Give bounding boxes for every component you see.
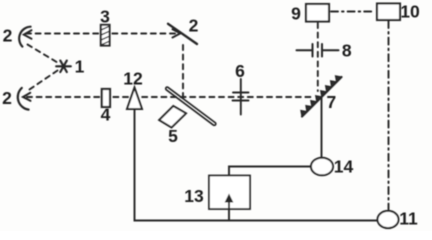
wire: grating 7 to detector 14 xyxy=(321,98,323,158)
plate 5 (tilted) xyxy=(159,106,186,128)
arrowhead at flat mirror 2 xyxy=(173,29,181,37)
attenuator 4 (open plate) xyxy=(102,89,110,107)
svg-text:2: 2 xyxy=(189,16,199,36)
svg-text:13: 13 xyxy=(184,186,204,206)
svg-text:6: 6 xyxy=(235,61,245,81)
wire: feedback line from modulator 12 to detector 11 xyxy=(135,109,378,221)
box 10 xyxy=(377,4,400,21)
svg-text:11: 11 xyxy=(399,209,418,229)
wire: amplifier 13 output to detector 14 xyxy=(229,167,311,176)
concave mirror 2 (bottom left) xyxy=(18,88,29,110)
svg-text:2: 2 xyxy=(3,26,13,46)
wire: top horizontal dashed beam xyxy=(26,33,176,35)
svg-text:4: 4 xyxy=(101,105,111,125)
svg-text:9: 9 xyxy=(291,4,301,24)
svg-text:7: 7 xyxy=(327,92,337,112)
arrowhead into top-left mirror 2 xyxy=(24,30,32,39)
box 9 xyxy=(306,4,329,22)
slit 8 xyxy=(297,44,339,57)
detector 11 (ellipse) xyxy=(378,211,399,228)
svg-text:5: 5 xyxy=(168,126,178,146)
svg-text:8: 8 xyxy=(342,41,352,61)
amplifier box 13 xyxy=(209,176,250,210)
lens 6 xyxy=(233,79,249,115)
flat mirror 2 (top right) xyxy=(168,24,197,44)
wire: vertical dashed beam mirror 2 to beamsplitter xyxy=(182,45,184,99)
svg-text:2: 2 xyxy=(2,88,12,108)
beamsplitter (tilted plate) xyxy=(165,86,216,125)
wire: dashed beam source 1 to bottom mirror 2 xyxy=(28,71,58,91)
concave mirror 2 (top left) xyxy=(19,27,30,47)
filter 3 (hatched plate) xyxy=(101,25,110,46)
svg-text:10: 10 xyxy=(400,2,420,22)
modulator 12 (triangle) xyxy=(127,88,142,110)
source 1 (star) xyxy=(56,61,71,72)
svg-text:1: 1 xyxy=(75,57,85,77)
wire: dashed beam source 1 to top mirror 2 xyxy=(28,45,58,63)
grating 7 (sawtooth mirror) xyxy=(301,76,342,117)
svg-text:3: 3 xyxy=(100,6,110,26)
svg-text:12: 12 xyxy=(123,68,143,88)
wire: dash-dot link box 9 to box 10 xyxy=(331,11,375,13)
arrowhead into bottom-left mirror 2 xyxy=(23,93,31,101)
wire: dash-dot link box 10 to detector 11 xyxy=(388,21,390,210)
arrow inside box 13 xyxy=(225,194,234,221)
svg-text:14: 14 xyxy=(334,157,354,177)
wire: vertical dashed beam grating 7 to box 9 xyxy=(317,23,319,91)
detector 14 (ellipse) xyxy=(311,158,333,176)
wire: bottom horizontal dashed beam xyxy=(27,96,311,98)
